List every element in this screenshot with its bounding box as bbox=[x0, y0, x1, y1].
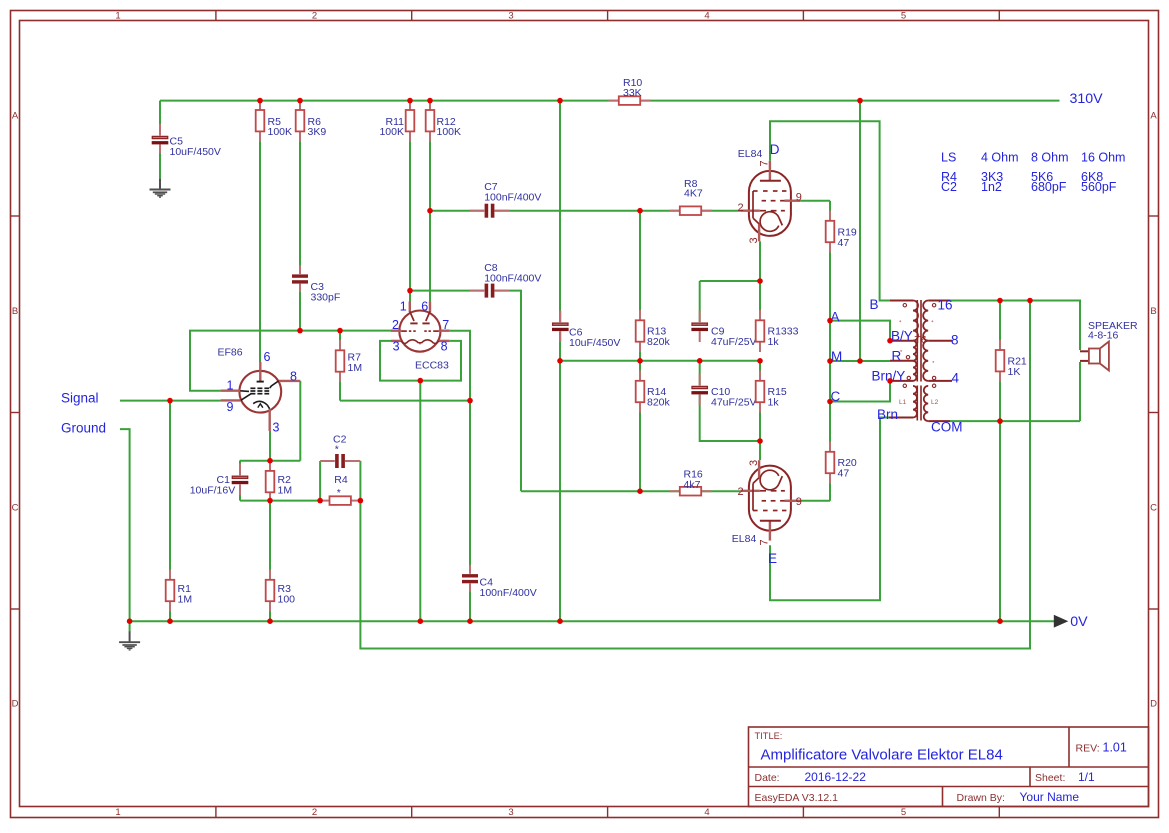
junction at 430,210.7 bbox=[427, 208, 433, 214]
junction at 170,400.6 bbox=[167, 398, 173, 404]
capacitor C5 bbox=[151, 124, 169, 156]
svg-text:0V: 0V bbox=[1070, 614, 1088, 630]
svg-text:7: 7 bbox=[758, 160, 770, 166]
svg-text:Signal: Signal bbox=[61, 391, 99, 406]
junction at 320.1,500.6 bbox=[317, 498, 323, 504]
tube EL84 V1 (upper) bbox=[738, 148, 802, 244]
ground under C5 bbox=[150, 179, 171, 198]
resistor R12 bbox=[426, 100, 461, 142]
svg-text:680pF: 680pF bbox=[1031, 180, 1067, 194]
svg-text:3: 3 bbox=[748, 460, 760, 466]
svg-text:Ground: Ground bbox=[61, 421, 106, 436]
svg-text:4-8-16: 4-8-16 bbox=[1088, 330, 1119, 342]
svg-text:2: 2 bbox=[392, 318, 399, 332]
resistor R14 bbox=[636, 371, 671, 413]
svg-text:820k: 820k bbox=[647, 336, 671, 348]
svg-text:7: 7 bbox=[758, 539, 770, 545]
svg-text:1k: 1k bbox=[768, 336, 780, 348]
svg-text:D: D bbox=[1150, 699, 1157, 710]
capacitor C4 bbox=[462, 565, 478, 592]
svg-text:ECC83: ECC83 bbox=[415, 359, 449, 371]
svg-text:10uF/450V: 10uF/450V bbox=[569, 337, 620, 349]
junction at 1000,421.1 bbox=[997, 418, 1003, 424]
junction at 420.3,621.2 bbox=[418, 618, 424, 624]
junction at 340,330.6 bbox=[337, 328, 343, 334]
junction at 1000,621.2 bbox=[997, 618, 1003, 624]
svg-text:6: 6 bbox=[264, 350, 271, 364]
net label R bbox=[892, 348, 902, 363]
junction at 420.3,380.6 bbox=[418, 378, 424, 384]
svg-text:*: * bbox=[337, 487, 341, 499]
net label COM bbox=[931, 420, 963, 435]
svg-text:47uF/25V: 47uF/25V bbox=[711, 397, 757, 409]
svg-text:*: * bbox=[335, 444, 339, 456]
wire net COM to speaker minus and 0V bbox=[950, 362, 1080, 421]
junction at 360.4,500.6 bbox=[358, 498, 364, 504]
svg-text:100nF/400V: 100nF/400V bbox=[484, 192, 541, 204]
resistor R1 bbox=[166, 570, 192, 612]
junction at 129.6,621.2 bbox=[127, 618, 133, 624]
net label Brn/Y bbox=[872, 368, 906, 383]
wire net R7 bottom / ECC83 pin7 / C4 bbox=[340, 331, 470, 622]
svg-text:LS: LS bbox=[941, 151, 956, 165]
resistor R5 bbox=[256, 100, 292, 142]
junction at 470,621.2 bbox=[467, 618, 473, 624]
speaker LS1 bbox=[1080, 320, 1138, 371]
junction at 410,100.6 bbox=[407, 98, 413, 104]
svg-text:100K: 100K bbox=[268, 126, 293, 138]
svg-text:1k: 1k bbox=[768, 397, 780, 409]
resistor R16 bbox=[670, 468, 712, 495]
net label M bbox=[831, 349, 842, 364]
svg-text:9: 9 bbox=[227, 400, 234, 414]
svg-text:4: 4 bbox=[704, 807, 709, 818]
svg-text:Your Name: Your Name bbox=[1020, 790, 1080, 804]
wire net R16 row to lower EL84 pin2 bbox=[521, 490, 740, 492]
resistor R1333 bbox=[756, 310, 799, 352]
svg-text:B: B bbox=[12, 306, 18, 317]
junction at 300,100.6 bbox=[297, 98, 303, 104]
svg-text:47: 47 bbox=[838, 468, 850, 480]
svg-text:330pF: 330pF bbox=[311, 292, 341, 304]
junction at 890,340.7 bbox=[887, 338, 893, 344]
wire net top EL84 pin9 R19 A M C R20 chain bbox=[800, 201, 830, 501]
value table LS R4 C2 bbox=[941, 151, 1125, 194]
junction at 640,360.8 bbox=[637, 358, 643, 364]
svg-text:D: D bbox=[770, 142, 780, 157]
svg-text:Date:: Date: bbox=[755, 772, 780, 784]
wire net C to transformer Brn/Y bbox=[830, 381, 890, 402]
wire net D (top EL84 plate to transformer B) bbox=[770, 121, 890, 300]
svg-text:100nF/400V: 100nF/400V bbox=[480, 587, 537, 599]
svg-text:100nF/400V: 100nF/400V bbox=[484, 272, 541, 284]
svg-text:C: C bbox=[12, 503, 19, 514]
svg-text:2: 2 bbox=[312, 11, 317, 22]
svg-text:3: 3 bbox=[273, 421, 280, 435]
junction at 890,380.9 bbox=[887, 378, 893, 384]
transformer T6 bbox=[889, 300, 952, 421]
net label D bbox=[770, 142, 780, 157]
svg-text:8: 8 bbox=[290, 370, 297, 384]
capacitor C6 bbox=[552, 311, 570, 343]
capacitor C3 bbox=[292, 265, 308, 292]
svg-text:47: 47 bbox=[838, 237, 850, 249]
svg-text:5: 5 bbox=[901, 11, 906, 22]
capacitor C2 bbox=[320, 454, 360, 468]
svg-text:B/Y: B/Y bbox=[891, 328, 913, 343]
capacitor C8 bbox=[470, 283, 510, 297]
svg-text:1: 1 bbox=[400, 299, 407, 313]
svg-text:EF86: EF86 bbox=[218, 347, 243, 359]
junction at 270,500.6 bbox=[267, 498, 273, 504]
resistor R8 bbox=[670, 178, 712, 215]
wire net C10 R15 to lower EL84 pin3 bbox=[700, 361, 760, 460]
svg-text:8: 8 bbox=[441, 339, 448, 353]
wire net 310V top rail bbox=[160, 101, 1060, 622]
svg-text:L1: L1 bbox=[899, 399, 907, 406]
svg-text:COM: COM bbox=[931, 420, 963, 435]
svg-text:310V: 310V bbox=[1070, 91, 1104, 107]
wire net ECC83 cathode box pins 3-8 bbox=[380, 341, 461, 621]
svg-text:1M: 1M bbox=[278, 485, 293, 497]
wire net EF86 pin1 / ECC83 pin2 / R7 top bbox=[190, 284, 391, 401]
net label Signal bbox=[61, 391, 99, 406]
net label 16 bbox=[938, 298, 953, 313]
svg-text:3: 3 bbox=[508, 807, 513, 818]
wire net Ground input and 0V rail bbox=[120, 429, 1056, 631]
svg-text:16 Ohm: 16 Ohm bbox=[1081, 151, 1125, 165]
svg-text:4: 4 bbox=[952, 371, 960, 386]
tube EF86 U1 bbox=[218, 347, 301, 435]
svg-text:7: 7 bbox=[442, 318, 449, 332]
wire net C8 row to ECC83 pin1 and R16 row riser bbox=[410, 291, 521, 492]
svg-text:4 Ohm: 4 Ohm bbox=[981, 151, 1019, 165]
svg-text:REV:: REV: bbox=[1076, 743, 1100, 755]
junction at 699.7,360.8 bbox=[697, 358, 703, 364]
net label C bbox=[831, 389, 841, 404]
svg-text:8 Ohm: 8 Ohm bbox=[1031, 151, 1069, 165]
net label E bbox=[768, 551, 777, 566]
svg-text:100K: 100K bbox=[437, 126, 462, 138]
net label Brn bbox=[877, 407, 898, 422]
junction at 1030,300.5 bbox=[1027, 298, 1033, 304]
svg-text:A: A bbox=[1150, 111, 1157, 122]
junction at 760,360.8 bbox=[757, 358, 763, 364]
svg-text:820k: 820k bbox=[647, 397, 671, 409]
net label 0V with arrow bbox=[1054, 614, 1088, 630]
svg-text:Brn: Brn bbox=[877, 407, 898, 422]
wire net E lower EL84 plate to transformer Brn bbox=[770, 418, 889, 601]
resistor R2 bbox=[266, 461, 292, 503]
svg-text:Sheet:: Sheet: bbox=[1035, 772, 1065, 784]
net label 8 bbox=[951, 333, 959, 348]
resistor R10 bbox=[609, 77, 651, 105]
svg-text:560pF: 560pF bbox=[1081, 180, 1117, 194]
svg-text:3: 3 bbox=[393, 339, 400, 353]
svg-text:EasyEDA V3.12.1: EasyEDA V3.12.1 bbox=[755, 792, 839, 804]
svg-text:1M: 1M bbox=[348, 362, 363, 374]
junction at 760,281 bbox=[757, 278, 763, 284]
resistor R21 bbox=[996, 340, 1027, 382]
capacitor C7 bbox=[470, 204, 510, 218]
svg-text:3: 3 bbox=[748, 237, 760, 243]
svg-text:100: 100 bbox=[278, 594, 296, 606]
svg-text:EL84: EL84 bbox=[738, 148, 763, 160]
svg-text:E: E bbox=[768, 551, 777, 566]
svg-text:2: 2 bbox=[312, 807, 317, 818]
svg-text:100K: 100K bbox=[379, 126, 404, 138]
resistor R11 bbox=[379, 100, 414, 142]
junction at 1000,300.5 bbox=[997, 298, 1003, 304]
svg-text:47uF/25V: 47uF/25V bbox=[711, 336, 757, 348]
wire net cathode rail y=360.8 C6 R13 C9 R1333 bbox=[560, 360, 760, 362]
wire net A to transformer B/Y bbox=[830, 321, 890, 341]
junction at 860,361 bbox=[857, 358, 863, 364]
resistor R4 bbox=[319, 496, 361, 505]
svg-text:6: 6 bbox=[421, 299, 428, 313]
svg-text:1: 1 bbox=[115, 11, 120, 22]
wire net speaker plus from transformer 16 bbox=[950, 301, 1080, 622]
svg-text:Amplificatore Valvolare Elekto: Amplificatore Valvolare Elektor EL84 bbox=[761, 747, 1003, 764]
junction at 270,621.2 bbox=[267, 618, 273, 624]
junction at 170,621.2 bbox=[167, 618, 173, 624]
junction at 830,320.6 bbox=[827, 318, 833, 324]
junction at 830,401.5 bbox=[827, 399, 833, 405]
svg-text:1: 1 bbox=[227, 379, 234, 393]
svg-text:8: 8 bbox=[951, 333, 959, 348]
svg-text:TITLE:: TITLE: bbox=[755, 731, 783, 741]
svg-text:3K9: 3K9 bbox=[308, 126, 327, 138]
svg-text:A: A bbox=[12, 111, 19, 122]
junction at 260,100.6 bbox=[257, 98, 263, 104]
svg-text:5: 5 bbox=[901, 807, 906, 818]
resistor R15 bbox=[756, 371, 787, 413]
net label A bbox=[831, 309, 840, 324]
svg-text:1.01: 1.01 bbox=[1103, 741, 1127, 755]
junction at 430,100.6 bbox=[427, 98, 433, 104]
svg-text:16: 16 bbox=[938, 298, 953, 313]
svg-text:C2: C2 bbox=[941, 180, 957, 194]
ground at 0V rail bbox=[119, 631, 140, 650]
resistor R13 bbox=[636, 310, 671, 352]
resistor R3 bbox=[266, 570, 295, 612]
net label B/Y bbox=[891, 328, 913, 343]
resistor R6 bbox=[296, 100, 327, 142]
resistor R7 bbox=[336, 340, 362, 382]
junction at 760,441 bbox=[757, 438, 763, 444]
junction at 560,621.2 bbox=[557, 618, 563, 624]
svg-text:1K: 1K bbox=[1008, 366, 1021, 378]
svg-text:3: 3 bbox=[508, 11, 513, 22]
junction at 640,491.2 bbox=[637, 488, 643, 494]
resistor R20 bbox=[826, 442, 857, 484]
tube EL84 V2 (lower) bbox=[732, 460, 802, 546]
wire net M to transformer R bbox=[830, 360, 890, 362]
title block bbox=[749, 727, 1149, 807]
svg-text:R: R bbox=[892, 348, 902, 363]
svg-text:1M: 1M bbox=[178, 594, 193, 606]
junction at 300,330.6 bbox=[297, 328, 303, 334]
capacitor C1 bbox=[231, 464, 249, 496]
net label Ground bbox=[61, 421, 106, 436]
junction at 410,290.6 bbox=[407, 288, 413, 294]
svg-text:4k7: 4k7 bbox=[684, 479, 701, 491]
svg-text:10uF/16V: 10uF/16V bbox=[190, 485, 236, 497]
tube ECC83 U2 bbox=[391, 299, 450, 371]
resistor R19 bbox=[826, 211, 857, 253]
capacitor C9 bbox=[691, 311, 709, 343]
wire net top EL84 pin3 / C9 / R1333 tops bbox=[700, 241, 760, 322]
junction at 640,210.7 bbox=[637, 208, 643, 214]
svg-text:L2: L2 bbox=[931, 399, 939, 406]
svg-text:B: B bbox=[870, 297, 879, 312]
svg-text:D: D bbox=[12, 699, 19, 710]
net label B bbox=[870, 297, 879, 312]
svg-text:Drawn By:: Drawn By: bbox=[957, 792, 1005, 804]
svg-text:2: 2 bbox=[738, 202, 744, 214]
wire net EF86 cathode C1 R2 C2 R4 bbox=[240, 381, 361, 621]
svg-text:4: 4 bbox=[704, 11, 709, 22]
svg-text:2: 2 bbox=[738, 486, 744, 498]
junction at 560,360.8 bbox=[557, 358, 563, 364]
svg-text:33K: 33K bbox=[623, 87, 642, 99]
wire net feedback from speaker 16 tap to R4/C2 bbox=[360, 301, 1030, 649]
svg-text:4K7: 4K7 bbox=[684, 187, 703, 199]
svg-text:1n2: 1n2 bbox=[981, 180, 1002, 194]
svg-text:1/1: 1/1 bbox=[1078, 770, 1095, 784]
svg-text:9: 9 bbox=[796, 496, 802, 508]
svg-text:R4: R4 bbox=[334, 474, 348, 486]
net label 4 bbox=[952, 371, 960, 386]
wire net Signal input to EF86 pin9 and R1 bbox=[120, 401, 221, 622]
svg-text:B: B bbox=[1150, 306, 1156, 317]
svg-text:EL84: EL84 bbox=[732, 533, 757, 545]
junction at 560,100.6 bbox=[557, 98, 563, 104]
svg-text:10uF/450V: 10uF/450V bbox=[170, 146, 221, 158]
junction at 830,361 bbox=[827, 358, 833, 364]
svg-text:2016-12-22: 2016-12-22 bbox=[805, 770, 867, 784]
net label 310V bbox=[1070, 91, 1104, 107]
junction at 270,460.7 bbox=[267, 458, 273, 464]
wire net grid row C7/R8 to top EL84 pin2 bbox=[430, 211, 740, 492]
junction at 860,100.6 bbox=[857, 98, 863, 104]
svg-text:9: 9 bbox=[796, 192, 802, 204]
svg-text:T6: T6 bbox=[915, 334, 927, 346]
capacitor C10 bbox=[691, 374, 709, 406]
junction at 470,400.6 bbox=[467, 398, 473, 404]
svg-text:C: C bbox=[1150, 503, 1157, 514]
svg-text:1: 1 bbox=[115, 807, 120, 818]
